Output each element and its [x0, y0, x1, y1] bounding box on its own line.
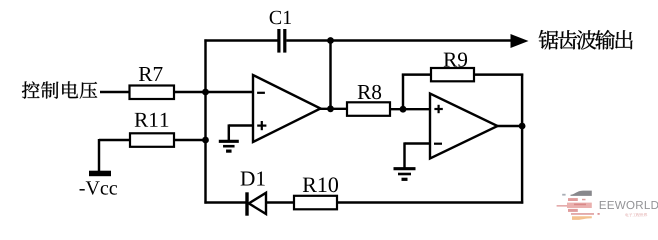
label R10	[303, 178, 317, 192]
wire: R9 to output column	[474, 73, 523, 75]
logo: Chinese subtitle	[625, 213, 628, 216]
wire: vertical from top node down to U1 output	[329, 41, 331, 110]
logo: EEWORLD wordmark	[600, 201, 606, 209]
U1 non-inverting input sign	[257, 124, 266, 126]
op-amp U1 (integrator)	[253, 75, 321, 142]
node: R8 / R9 junction	[400, 106, 407, 113]
label R9	[444, 53, 458, 67]
wire: R11 to bus	[174, 139, 206, 141]
wire: D1 to R10	[266, 201, 294, 203]
label C1	[270, 11, 281, 24]
wire: U2 output	[497, 125, 523, 127]
wire: R8 to U2 non-inverting input	[390, 108, 430, 110]
resistor R11	[130, 133, 174, 147]
wire: right vertical, R9 down to bottom wire	[521, 74, 523, 204]
-Vcc terminal bar	[89, 171, 111, 177]
label R7	[139, 67, 153, 81]
logo: EEWORLD icon	[557, 191, 600, 220]
text: sawtooth output (Chinese)	[539, 30, 559, 49]
label D1	[241, 172, 255, 186]
wire: left vertical bus	[204, 39, 206, 203]
wire: R9 branch up	[402, 74, 404, 110]
label R11	[135, 113, 149, 127]
diode D1	[245, 192, 248, 215]
arrowhead: sawtooth output	[511, 34, 529, 48]
resistor R7	[130, 86, 175, 100]
wire: U1 output to R8	[320, 108, 347, 110]
U2 non-inverting input sign	[434, 108, 442, 110]
ground: U1 non-inverting input	[219, 140, 239, 143]
capacitor C1	[277, 29, 280, 53]
text: control voltage (Chinese)	[22, 81, 40, 98]
node: U2 output junction	[519, 123, 526, 130]
wire: R7 to op-amp U1 inverting input	[174, 91, 253, 93]
node: C1 / output / U1-out junction	[327, 37, 334, 44]
node: U1 output junction	[327, 105, 334, 112]
node: R7 / integrator input junction	[202, 89, 209, 96]
wire: R10 to right vertical	[337, 201, 523, 203]
resistor R10	[294, 196, 337, 210]
resistor R8	[347, 102, 390, 116]
wire: top feedback, bus corner to C1	[204, 39, 278, 41]
label -Vcc	[80, 189, 85, 190]
wire: U2 inverting input to ground	[405, 142, 431, 144]
wire: input from control voltage to R7	[100, 91, 130, 93]
wire: C1 to output arrow	[286, 39, 512, 41]
U2 inverting input sign	[434, 143, 442, 145]
wire: R11 to -Vcc branch	[99, 139, 130, 141]
ground: U2 inverting input	[394, 167, 416, 170]
wire: bottom feedback	[204, 201, 246, 203]
label R8	[358, 85, 372, 99]
wire: U1 non-inverting input to ground	[229, 124, 253, 126]
node: R11 junction	[202, 137, 209, 144]
resistor R9	[431, 68, 474, 81]
U1 inverting input sign	[257, 92, 265, 94]
op-amp U2 (comparator)	[430, 94, 498, 159]
